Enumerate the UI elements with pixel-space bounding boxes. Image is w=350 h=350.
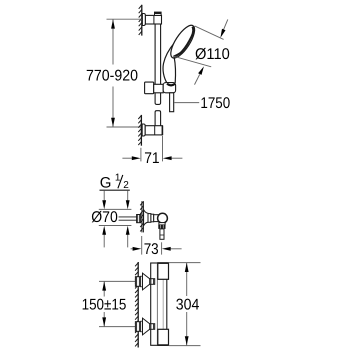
thermostat top union: [135, 273, 154, 290]
thermostat wall hatching: [135, 262, 138, 348]
dim 71 right extension line: [162, 136, 164, 161]
handle cone seat: [167, 84, 175, 86]
bottom bracket flange: [142, 124, 145, 136]
slider mid: [154, 84, 164, 93]
shower head rim band: [173, 27, 193, 57]
union ring 2: [151, 214, 154, 222]
G 1/2 underline: [100, 189, 130, 191]
dim 73 right extension line: [161, 242, 163, 254]
dim 73 left extension line: [141, 236, 143, 255]
shower head face ellipse: [166, 22, 198, 61]
dim Ø110 lower extension line: [174, 56, 211, 67]
svg-text:2: 2: [123, 180, 129, 191]
svg-text:Ø70: Ø70: [91, 209, 118, 226]
union escutcheon cone: [144, 210, 148, 226]
thermostat bottom handle: [158, 329, 169, 345]
union ring 1: [148, 214, 151, 223]
hose end piece: [170, 93, 174, 112]
top bracket flange: [142, 14, 145, 26]
union pipe stub: [119, 216, 137, 218]
svg-text:304: 304: [176, 296, 200, 313]
dim 73 arrows: [131, 248, 133, 250]
svg-text:1750: 1750: [200, 95, 230, 112]
handle right edge: [174, 58, 175, 84]
dim Ø110 upper extension line: [195, 26, 224, 40]
slider knob: [145, 82, 154, 94]
union thread nut: [137, 215, 141, 223]
union hose nipple: [160, 229, 164, 239]
G1/2 right arrows: [127, 191, 129, 202]
dim 71 arrows: [122, 157, 133, 159]
rail top cap: [155, 12, 162, 15]
dim 1750 leader: [174, 102, 199, 104]
union link to ball: [154, 215, 159, 222]
thermostat body: [151, 263, 167, 345]
svg-text:G: G: [100, 174, 112, 191]
bottom bracket arm: [145, 126, 162, 135]
svg-text:73: 73: [144, 241, 159, 258]
Ø70 extension lines: [99, 208, 132, 210]
slider cup: [163, 83, 175, 93]
svg-text:Ø110: Ø110: [195, 46, 230, 63]
svg-text:150±15: 150±15: [82, 296, 127, 313]
union ball: [158, 213, 168, 223]
rail upper piece: [155, 24, 161, 104]
dim 150±15 extension lines: [99, 280, 135, 282]
dim 304 line and arrows: [186, 263, 188, 296]
union knurl ring: [158, 225, 165, 229]
shower head back dome: [163, 43, 175, 84]
thermostat top handle: [158, 263, 169, 280]
thermostat bottom union: [135, 318, 154, 335]
svg-text:71: 71: [144, 150, 159, 167]
union neck: [159, 223, 165, 225]
dim 770-920 line and arrows: [112, 19, 114, 127]
dim 71 left extension line: [140, 148, 142, 162]
dim 150±15 line and arrows: [103, 281, 105, 296]
Ø70 left arrows: [103, 191, 105, 202]
dim Ø110 lower arrow: [195, 74, 200, 84]
svg-text:770-920: 770-920: [86, 67, 138, 84]
top bracket arm: [145, 15, 161, 24]
dim Ø110 upper arrow: [223, 19, 228, 31]
rail lower piece: [155, 111, 161, 126]
dim 770-920 bottom extension line: [107, 126, 142, 128]
dim 304 extension lines: [169, 262, 201, 264]
dim 770-920 top extension line: [107, 18, 143, 20]
bottom bracket wall hatching: [138, 115, 141, 146]
top wall hatching: [139, 5, 142, 36]
middle wall hatching: [140, 201, 143, 232]
